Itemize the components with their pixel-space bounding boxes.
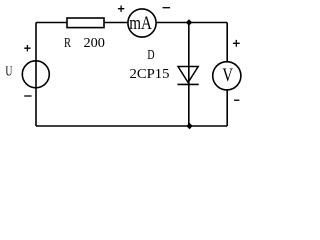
ammeter U1 circle: [128, 9, 156, 37]
diode cathode bar: [178, 83, 199, 85]
svg-text:200: 200: [84, 36, 105, 51]
voltmeter plus: [233, 40, 240, 47]
node junction bottom: [186, 123, 192, 129]
svg-text:2CP15: 2CP15: [130, 67, 170, 82]
source U circle: [22, 61, 49, 88]
wire bottom return: [36, 125, 227, 127]
source minus: [24, 95, 31, 97]
voltmeter circle: [213, 62, 241, 90]
wire right branch through voltmeter: [226, 23, 228, 127]
svg-text:U: U: [5, 65, 12, 80]
svg-text:R: R: [64, 36, 71, 51]
wire top: node from source to resistor, mA meter, diode branch, voltmeter branch: [36, 22, 227, 24]
resistor R: [67, 18, 104, 28]
svg-text:mA: mA: [129, 13, 152, 34]
ammeter plus: [118, 6, 124, 12]
diode D triangle: [178, 67, 198, 83]
ammeter minus: [163, 7, 171, 9]
voltmeter minus: [234, 99, 239, 101]
source plus: [24, 45, 30, 51]
wire left branch through source U: [35, 23, 37, 127]
svg-text:D: D: [147, 48, 154, 63]
svg-text:V: V: [222, 65, 233, 86]
node junction top: [186, 19, 192, 25]
wire diode branch: [188, 23, 190, 127]
